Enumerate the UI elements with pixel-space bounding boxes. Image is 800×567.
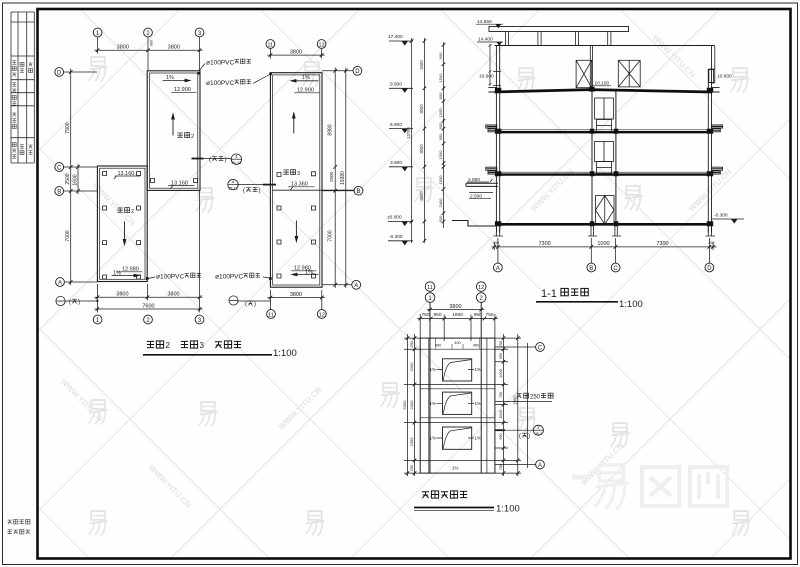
svg-text:D: D [355,69,360,75]
svg-text:950: 950 [433,312,441,318]
grid bubble 1 bottom [93,315,102,324]
section grid bubble C [615,252,617,263]
watermark big logo yitunet bottom right [572,465,727,509]
svg-text:A: A [538,463,542,469]
svg-text:100: 100 [493,241,499,245]
svg-text:1:100: 1:100 [619,299,643,310]
eave ledge right floor2 [712,125,723,132]
water marker bottom left [56,296,99,305]
svg-text:(: ( [245,302,247,308]
svg-text:750: 750 [499,341,503,347]
bottom dim chain 11-12 [268,290,325,310]
svg-text:1000: 1000 [597,241,609,247]
svg-text:ø100PVC: ø100PVC [206,60,234,67]
svg-text:D: D [57,70,62,76]
PVC rain pipe label top 1 [198,59,251,74]
roof 3 B-row dividing line [273,189,354,191]
1% slope labels [430,367,482,471]
grid bubble A left [56,278,65,287]
svg-text:600: 600 [438,92,443,99]
svg-text:900: 900 [438,133,443,140]
grid bubble 2 top [144,28,153,37]
svg-text:A: A [354,283,358,289]
svg-text:J5-13: J5-13 [231,160,242,165]
slope arrow down lower-left [123,222,126,245]
svg-text:2300: 2300 [409,362,414,372]
svg-text:2500: 2500 [329,171,334,182]
svg-text:3800: 3800 [449,304,461,310]
svg-text:2400: 2400 [438,198,443,208]
svg-text:7000: 7000 [65,230,71,241]
window box 3 w/ curve [443,427,472,449]
svg-text:ø100PVC: ø100PVC [206,80,234,87]
svg-text:3800: 3800 [290,50,302,56]
grid bubble 2 bottom [144,315,153,324]
skylight box right [618,60,640,87]
roof slab thick [495,90,712,92]
svg-text:1%: 1% [430,367,437,372]
shaft window level 3 [595,98,614,132]
1% slope arrow top roof3 [291,80,318,83]
svg-text:7000: 7000 [328,230,334,241]
parapet mini dim line [489,44,492,86]
svg-text:2300: 2300 [409,437,414,447]
svg-text:7600: 7600 [142,304,154,310]
svg-text:3800: 3800 [116,292,128,298]
grid bubble 11 bottom [267,310,276,319]
svg-text:1600: 1600 [72,174,78,185]
svg-text:1%: 1% [113,270,121,276]
slope arrow up roof2 mid [172,114,175,135]
svg-text:): ) [225,157,227,163]
PVC rain pipe label top 2 [206,73,272,87]
svg-text:1000: 1000 [498,368,503,378]
svg-text:6.900: 6.900 [390,122,402,128]
bubble A right [495,464,536,466]
svg-text:1:100: 1:100 [496,504,520,515]
svg-text:3800: 3800 [117,45,129,51]
svg-text:(: ( [243,188,245,194]
shaft door ground w/ diamond [596,196,615,225]
top dim 3800 [427,308,484,312]
entrance canopy left [466,183,498,186]
exterior grade right + -0.300 [712,218,745,220]
1% arrow lower-left bottom [112,274,139,277]
svg-text:C: C [57,165,62,171]
svg-text:750: 750 [499,392,503,398]
grid bubble A right [352,280,361,289]
svg-text:450: 450 [473,344,479,348]
grid lines vertical [430,302,481,473]
svg-text:-0.300: -0.300 [389,234,403,240]
svg-text:1%: 1% [305,269,313,275]
svg-text:3000: 3000 [419,104,424,114]
parapet level ticks left [493,72,501,86]
right wall [708,46,711,233]
svg-text:8980: 8980 [328,124,334,135]
svg-text:3: 3 [297,171,300,177]
svg-text:900: 900 [438,52,443,59]
slope arrow down roof3 lower [295,221,298,242]
roof eave ledge right [712,88,720,92]
1% slope arrow top mid roof [163,79,190,82]
grid bubble 11 [425,282,435,292]
stair shaft walls [592,90,616,224]
parapet top line [495,45,715,47]
right dim chains [495,334,528,476]
svg-text:12: 12 [319,312,325,318]
svg-text:1%: 1% [302,75,310,81]
slope arrow up roof3 [293,113,296,133]
roof3 label [284,170,300,177]
svg-text:3000: 3000 [419,144,424,154]
grid bubble 11 top [266,40,275,49]
left wall [496,46,499,233]
svg-text:2500: 2500 [65,173,71,184]
slab outer rect [420,338,495,473]
eave ledge right floor3 [712,167,723,174]
grid bubble 2 [476,293,486,303]
svg-text:1500: 1500 [438,73,443,83]
svg-text:5300: 5300 [402,400,407,410]
svg-text:10.600: 10.600 [479,74,494,80]
svg-text:J5-1: J5-1 [535,432,542,436]
rain water detail marker 2 [228,179,276,194]
svg-text:1%: 1% [430,436,437,441]
svg-text:600: 600 [438,215,443,222]
columns below ground [494,224,716,236]
left dim chains [404,334,420,476]
svg-text:950: 950 [474,312,482,318]
svg-text:400: 400 [454,341,460,345]
svg-text:B: B [356,189,360,195]
svg-text:19380: 19380 [340,171,346,185]
svg-text:250: 250 [410,341,414,347]
svg-text:3800: 3800 [168,45,180,51]
svg-text:12: 12 [319,42,325,48]
bulkhead wall grid B above roof [590,46,592,91]
grid bubble C left [55,163,64,172]
grid bubble 12 bottom [317,310,326,319]
bubble C right [495,346,536,348]
svg-text:3400: 3400 [419,60,424,70]
roof eave ledge left [488,88,496,92]
left dim chain [64,69,98,286]
right dim chains [322,68,354,289]
svg-text:): ) [78,300,80,306]
corner small text bottom-left [8,520,30,534]
section grid bubble B [590,252,592,263]
roof2 label (lower-left) [118,208,134,215]
slab width label [495,401,552,403]
svg-text:13700: 13700 [406,127,411,139]
svg-text:(: ( [209,157,211,163]
roof slab 3 right wall inner [273,75,320,285]
svg-text:3900: 3900 [419,191,424,201]
grid bubble B left [55,187,64,196]
grid bubble 12 top [317,40,326,49]
svg-text:1900: 1900 [452,312,463,318]
svg-text:D: D [707,266,712,272]
top dim chain 11-12 [267,49,324,59]
roof slab 2 lower-left wall inner [100,168,145,279]
roof slab 2 lower-left wall outer [97,166,147,282]
svg-text:ø100PVC: ø100PVC [156,274,184,281]
right parapet post [708,46,715,83]
canopy slab [489,27,629,32]
watermark url texts [59,33,734,509]
svg-text:): ) [259,188,261,194]
svg-text:100: 100 [708,241,714,245]
watermark yi glyphs [89,57,750,535]
svg-text:750: 750 [421,312,429,318]
svg-text:): ) [254,302,256,308]
svg-text:2900: 2900 [512,395,517,405]
svg-text:250: 250 [410,465,414,471]
section grid bubble A [497,252,499,263]
svg-text:950: 950 [499,433,503,439]
svg-text:7300: 7300 [656,241,668,247]
svg-text:1%: 1% [475,367,482,372]
roof slab 3 right wall outer [270,73,322,288]
slab plan title [414,491,520,515]
svg-text:2: 2 [131,209,134,215]
rain water detail marker 1 [192,154,243,165]
grid bubble D right [353,66,362,75]
svg-text:950: 950 [499,353,503,359]
svg-text:11: 11 [268,42,274,48]
svg-text:17.400: 17.400 [388,34,403,40]
svg-text:14.400: 14.400 [478,36,493,42]
grid bubble B right [354,186,363,195]
shaft window level 2 [595,142,614,174]
floor slab 2 [496,129,711,131]
section grid bubble D [708,252,710,263]
svg-text:A: A [496,266,500,272]
svg-text:600: 600 [150,40,154,46]
PVC rain pipe label bottom 1 [146,273,201,280]
svg-text:3.900: 3.900 [390,160,402,166]
title block tiny cell texts [12,61,32,159]
PVC rain pipe label bottom 2 [215,273,271,280]
svg-text:C: C [538,345,543,351]
roof slab 2 middle tall wall inner [149,73,197,188]
1% arrow roof3 bottom [292,273,318,276]
svg-text:1500: 1500 [438,108,443,118]
roof slab 2 middle tall wall outer [147,71,200,191]
window box 2 w/ curve [443,392,472,414]
water marker bottom right [229,296,271,308]
svg-text:1%: 1% [430,401,437,406]
grid bubble 1 top [93,28,102,37]
svg-text:1:100: 1:100 [273,348,297,359]
svg-text:1%: 1% [166,75,174,81]
svg-text:): ) [528,434,530,440]
svg-text:1%: 1% [475,401,482,406]
section title 1-1 [536,288,643,310]
svg-text:3800: 3800 [290,292,302,298]
svg-text:450: 450 [435,344,441,348]
beam sections (black blobs) [495,87,713,227]
grid bubble 12 [476,282,486,292]
svg-text:2: 2 [166,341,171,350]
svg-text:B: B [589,266,593,272]
svg-text:1000: 1000 [498,409,503,419]
exterior grade left [452,221,496,227]
svg-text:A: A [58,280,62,286]
svg-text:750: 750 [486,312,494,318]
svg-text:(: ( [519,434,521,440]
eave ledge left floor2 [486,125,497,132]
svg-text:11: 11 [268,312,274,318]
bottom dim chain 1-3 row1 [94,190,202,312]
ground slab [496,223,711,226]
roof drain squares [103,172,316,280]
roof2 label (mid) [178,133,194,140]
svg-text:J5-12: J5-12 [228,185,239,190]
eave ledge left floor3 [486,167,497,174]
window box 1 w/ curve [443,359,472,381]
svg-text:1%: 1% [452,466,459,471]
floor slab 3 [496,171,711,173]
svg-text:1-1: 1-1 [541,288,557,300]
left plan title [143,341,297,359]
canopy posts [505,32,611,46]
skylight box left [576,60,592,87]
grid bubble 3 top [195,28,204,37]
svg-text:9.900: 9.900 [390,82,402,88]
svg-text:3800: 3800 [167,292,179,298]
svg-text:2400: 2400 [409,400,414,410]
svg-text:7900: 7900 [65,122,71,133]
svg-text:B: B [57,189,61,195]
bottom dim line [492,238,717,252]
svg-text:1500: 1500 [438,150,443,160]
svg-text:250: 250 [530,395,541,401]
svg-text:±0.000: ±0.000 [387,215,402,221]
svg-text:(: ( [69,300,71,306]
svg-text:C: C [613,266,618,272]
water detail marker right [495,429,505,431]
svg-text:600: 600 [438,122,443,129]
svg-text:11: 11 [427,285,433,291]
svg-text:ø100PVC: ø100PVC [215,274,243,281]
grid bubble D left [55,68,64,77]
slab band separators [420,385,495,423]
grid bubble 3 bottom [195,315,204,324]
svg-text:3: 3 [200,341,205,350]
top dim chain 1-3 [95,37,203,70]
svg-text:2: 2 [191,134,194,140]
svg-text:10.600: 10.600 [717,74,732,80]
svg-text:1500: 1500 [438,175,443,185]
svg-text:7300: 7300 [538,241,550,247]
svg-text:12: 12 [478,285,484,291]
title block strip [11,12,34,163]
svg-text:-0.300: -0.300 [714,213,728,219]
top dim chain 750/950/1900/950/750 [417,314,498,341]
grid bubble 1 [425,293,435,303]
slab inner lines [420,338,495,473]
svg-text:1%: 1% [475,436,482,441]
left vertical dim chains [410,38,446,243]
